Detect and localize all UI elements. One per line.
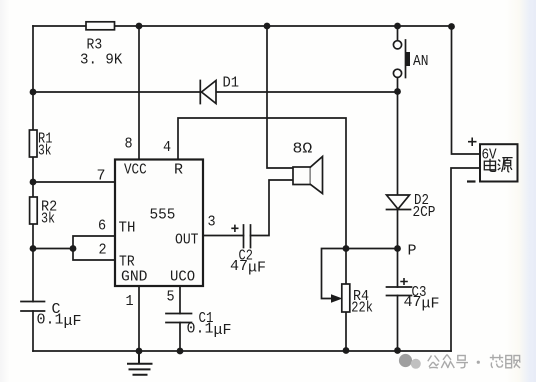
- svg-text:3: 3: [208, 214, 216, 231]
- svg-text:P: P: [408, 243, 417, 260]
- svg-text:0.1μF: 0.1μF: [37, 312, 82, 330]
- svg-text:UCO: UCO: [170, 269, 195, 286]
- svg-text:47μF: 47μF: [230, 258, 266, 277]
- svg-text:0.1μF: 0.1μF: [187, 321, 232, 339]
- svg-text:8: 8: [125, 136, 133, 153]
- svg-text:R: R: [174, 162, 183, 179]
- svg-text:2: 2: [99, 242, 107, 259]
- svg-text:AN: AN: [413, 53, 428, 70]
- svg-text:3k: 3k: [38, 142, 52, 159]
- svg-text:7: 7: [97, 168, 106, 185]
- svg-text:6: 6: [98, 218, 106, 235]
- svg-text:4: 4: [163, 139, 171, 156]
- svg-text:3. 9K: 3. 9K: [80, 52, 123, 68]
- svg-text:OUT: OUT: [175, 232, 198, 249]
- svg-text:2CP: 2CP: [413, 204, 436, 221]
- svg-text:47μF: 47μF: [404, 294, 440, 313]
- svg-text:22k: 22k: [351, 300, 373, 317]
- svg-text:5: 5: [167, 289, 175, 306]
- svg-text:GND: GND: [121, 269, 148, 285]
- svg-text:8Ω: 8Ω: [293, 140, 313, 157]
- svg-text:VCC: VCC: [124, 162, 147, 179]
- svg-text:1: 1: [126, 293, 134, 310]
- svg-text:555: 555: [150, 207, 176, 223]
- svg-text:D1: D1: [223, 75, 240, 92]
- svg-text:TH: TH: [119, 220, 136, 236]
- svg-text:TR: TR: [119, 254, 135, 271]
- svg-text:3k: 3k: [41, 211, 55, 228]
